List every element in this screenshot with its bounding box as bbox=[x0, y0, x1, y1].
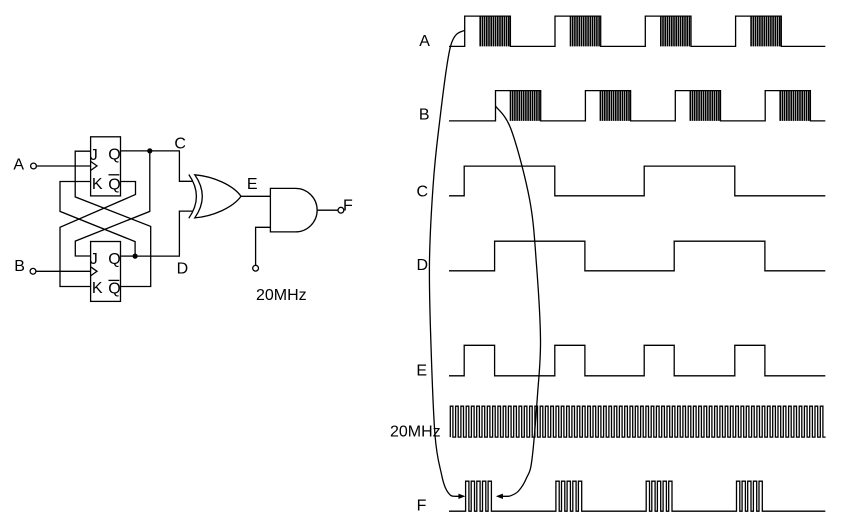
annotation arc from A rising edge to F burst start bbox=[429, 30, 464, 496]
svg-text:B: B bbox=[14, 258, 25, 275]
waveform E bbox=[449, 345, 825, 376]
annotation arc from B rising edge to F burst end bbox=[496, 106, 541, 496]
wire K1 from Q2 (cross-coupling) bbox=[60, 182, 135, 257]
and gate U4 bbox=[270, 188, 317, 232]
output terminal F bbox=[338, 207, 344, 213]
svg-text:K: K bbox=[92, 280, 103, 297]
node D junction dot bbox=[133, 254, 138, 259]
svg-text:Q: Q bbox=[108, 147, 120, 164]
svg-text:B: B bbox=[419, 106, 430, 123]
svg-text:K: K bbox=[92, 176, 103, 193]
waveform B bbox=[449, 91, 825, 121]
wire Q1 to node C bbox=[121, 150, 150, 152]
wire Q2 to node D bbox=[121, 255, 136, 257]
svg-text:A: A bbox=[419, 33, 430, 50]
svg-text:J: J bbox=[90, 251, 98, 268]
svg-text:D: D bbox=[177, 260, 189, 277]
terminal 20MHz clock input bbox=[253, 265, 259, 271]
waveform D bbox=[449, 241, 825, 271]
wire K2 from Qbar1 (cross-coupling) bbox=[60, 182, 136, 287]
waveform 20MHz bbox=[450, 406, 825, 437]
waveform F bbox=[449, 481, 825, 511]
svg-text:20MHz: 20MHz bbox=[390, 423, 441, 440]
svg-text:C: C bbox=[417, 183, 429, 200]
svg-text:J: J bbox=[90, 147, 98, 164]
svg-text:Q: Q bbox=[108, 176, 120, 193]
flip-flop U1 (JK) body bbox=[91, 137, 121, 196]
U1 clock chevron bbox=[91, 161, 97, 170]
wire J2 from node C (cross-coupling) bbox=[75, 151, 150, 256]
arrowhead at F burst start bbox=[458, 494, 465, 499]
wire node D to XOR bottom input bbox=[135, 211, 193, 256]
wire AND second input to 20MHz terminal bbox=[256, 227, 271, 265]
wire A to FF1 clock bbox=[36, 165, 90, 167]
flip-flop U2 (JK) body bbox=[91, 242, 121, 302]
input terminal B bbox=[30, 268, 36, 274]
svg-text:F: F bbox=[417, 498, 427, 515]
wire node C to XOR top input bbox=[150, 151, 193, 181]
wire F: AND output to terminal bbox=[317, 209, 338, 211]
svg-text:A: A bbox=[13, 156, 24, 173]
U2 Qbar overbar bbox=[109, 279, 120, 281]
wire E: XOR output to AND input bbox=[241, 195, 270, 197]
svg-text:E: E bbox=[416, 362, 427, 379]
wire J1 from Qbar2 (cross-coupling) bbox=[75, 151, 151, 286]
arrowhead at F burst end bbox=[496, 494, 503, 499]
svg-text:D: D bbox=[417, 257, 429, 274]
svg-text:C: C bbox=[174, 136, 186, 153]
waveform A bbox=[449, 16, 825, 46]
node C junction dot bbox=[147, 148, 152, 153]
svg-text:Q: Q bbox=[108, 251, 120, 268]
svg-text:Q: Q bbox=[108, 280, 120, 297]
U2 clock chevron bbox=[91, 267, 97, 276]
svg-text:F: F bbox=[343, 198, 353, 215]
U1 Qbar overbar bbox=[109, 174, 120, 176]
wire B to FF2 clock bbox=[36, 270, 91, 272]
xor gate U3 body bbox=[195, 175, 241, 218]
xor gate U3 input arc bbox=[189, 175, 197, 219]
waveform C bbox=[449, 166, 825, 196]
20MHz burst hatching on waveform B bbox=[511, 91, 809, 121]
svg-text:E: E bbox=[247, 176, 258, 193]
20MHz burst hatching on waveform A bbox=[480, 16, 780, 46]
svg-text:20MHz: 20MHz bbox=[256, 287, 307, 304]
input terminal A bbox=[31, 163, 37, 169]
